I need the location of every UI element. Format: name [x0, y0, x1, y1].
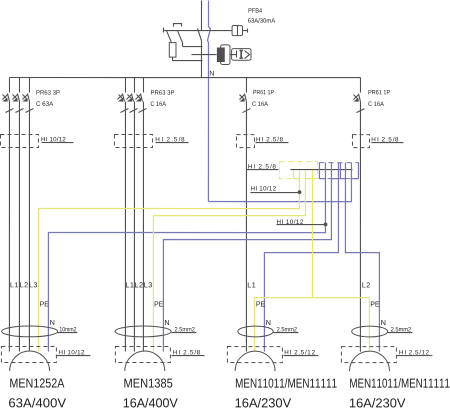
label PR63 3P (Q2) — [151, 90, 174, 94]
wire breaker2 pole3 lower to outlet — [142, 102, 144, 352]
socket arc outlet3 — [235, 351, 275, 371]
breaker pole contact Q2 P2 — [126, 94, 137, 113]
label L2 outlet1 — [20, 282, 28, 287]
breaker pole contact Q2 P1 — [117, 94, 128, 113]
PE wire to outlet1 — [38, 171, 299, 352]
label N outlet3 — [266, 320, 270, 325]
label PR61 1P (Q4) — [369, 90, 390, 94]
terminal box HI 2.5/8 (Q4) — [352, 135, 369, 148]
label 2.5mm2 outlet3 — [277, 327, 297, 331]
label L3 outlet1 — [30, 282, 38, 287]
label 10mm2 outlet1 — [60, 327, 76, 331]
wire breaker1 pole3 lower to outlet — [28, 102, 30, 352]
N loop stub b — [339, 163, 341, 179]
terminal box HI 2.5/8 (Q3) — [236, 135, 254, 148]
PE wire outlet4 — [368, 298, 370, 352]
socket arc outlet2 — [125, 351, 165, 371]
wire incoming phase L from top — [200, 1, 202, 31]
RCD test button box — [232, 26, 247, 36]
wire breaker2 pole2 lower to outlet — [133, 102, 135, 352]
PE wire to outlet2 — [153, 171, 305, 352]
terminal strip spine leader — [290, 169, 352, 171]
RCD mechanical linkage bracket — [173, 24, 181, 27]
N wire to outlet3 — [264, 163, 338, 352]
outlet terminal box 4 — [341, 347, 396, 363]
label MEN1385 — [124, 378, 172, 387]
junction dot on N wire — [324, 222, 328, 226]
wire breaker4 upper — [359, 78, 361, 93]
label HI 10/12 leader2 — [277, 219, 303, 224]
label PE outlet2 — [155, 301, 163, 306]
N U-bottom 1 — [319, 178, 325, 180]
label HI 2.5/8 (Q2) — [156, 137, 185, 142]
label N outlet1 — [50, 320, 54, 325]
N terminal strip (blue dashed) — [319, 163, 358, 179]
label 63A/400V — [9, 398, 66, 408]
toroid sensing line — [191, 54, 216, 56]
label L1 outlet1 — [11, 282, 19, 287]
cable ellipse outlet3 — [238, 326, 273, 337]
N U-bottom 3 — [340, 178, 345, 180]
PE branch horizontal — [254, 297, 369, 299]
label L1 outlet2 — [126, 282, 134, 287]
wire breaker1 pole1 upper — [8, 78, 10, 93]
label MEN11011/MEN11111 — [236, 378, 337, 388]
outlet terminal box 2 — [115, 347, 170, 363]
N loop stub c — [357, 163, 359, 179]
wire breaker1 pole3 upper — [28, 78, 30, 93]
PE U-bottom 2 — [305, 178, 312, 180]
PE loop stub — [292, 171, 294, 179]
label PR63 3P (Q1) — [36, 90, 59, 94]
wire breaker1 pole2 upper — [18, 78, 20, 93]
RCD Q0 phase contact blade — [197, 29, 201, 41]
label PE outlet1 — [40, 301, 48, 306]
label HI 2.5/8 (Q4) — [372, 137, 398, 142]
wire blade to phase — [182, 46, 202, 48]
RCD trip coil — [169, 43, 176, 58]
label PE outlet3 — [256, 302, 264, 307]
label HI 2.5/12 outlet3 — [285, 350, 315, 355]
label L3 outlet2 — [144, 282, 152, 287]
RCD test contact blade — [166, 31, 171, 43]
N U-bottom 2 — [331, 178, 338, 180]
socket arc outlet4 — [350, 351, 390, 371]
RCD top linkage line — [163, 30, 232, 32]
label HI 2.5/12 outlet4 — [399, 350, 428, 355]
label L2 outlet4 — [362, 282, 370, 287]
label HI 10/12 leader1 — [251, 186, 276, 191]
label 16A/400V — [124, 398, 178, 408]
wire coil to trip unit — [172, 58, 202, 61]
outlet terminal box 1 — [1, 347, 56, 363]
overcurrent release I> box — [231, 49, 251, 61]
N wire to outlet1 — [48, 163, 325, 352]
N wire to outlet4 — [345, 163, 379, 352]
label HI 2.5/8 (Q3) — [256, 137, 282, 142]
wire breaker2 pole3 upper — [142, 78, 144, 93]
PE terminal strip (yellow dashed) — [279, 162, 317, 179]
cable ellipse outlet2 — [115, 326, 171, 337]
label C 63A (Q1) — [36, 101, 53, 105]
label MEN1252A — [10, 378, 64, 387]
bus bar L — [9, 77, 360, 79]
wire breaker3 lower to outlet — [245, 102, 247, 352]
breaker pole contact Q1 P2 — [12, 94, 23, 113]
label N outlet2 — [165, 320, 169, 325]
RCD toroid core — [217, 48, 225, 63]
label MEN11011/MEN11111 — [350, 378, 449, 388]
wire breaker2 pole1 lower to outlet — [124, 102, 126, 352]
label PR61 1P (Q3) — [253, 90, 273, 94]
terminal tick left — [162, 28, 164, 33]
wire breaker4 lower to outlet — [359, 102, 361, 352]
outlet terminal box 3 — [227, 347, 282, 363]
label C 16A (Q4) — [368, 101, 384, 105]
N feed wire from RCD — [208, 163, 351, 202]
label L1 outlet3 — [248, 282, 256, 287]
label HI 10/12 (Q1) — [41, 137, 65, 142]
wire breaker3 upper — [245, 78, 247, 93]
label 2.5mm2 outlet4 — [391, 327, 411, 331]
junction dot on PE wire — [298, 190, 302, 194]
PE feed to outlets 3+4 — [311, 171, 313, 298]
wire breaker1 pole2 lower to outlet — [18, 102, 20, 352]
PE wire outlet3 — [253, 298, 255, 352]
wire frame to release — [230, 54, 231, 56]
cable ellipse outlet1 — [2, 326, 58, 337]
label 16A/230V — [236, 398, 292, 408]
wire breaker2 pole2 upper — [133, 78, 135, 93]
breaker pole contact Q1 P1 — [2, 94, 13, 113]
PE U-bottom 1 — [293, 178, 299, 180]
breaker pole contact Q3 — [239, 94, 250, 113]
label N at RCD output — [210, 71, 214, 76]
breaker pole contact Q1 P3 — [22, 94, 33, 113]
terminal box HI 10/12 (Q1) — [0, 135, 38, 148]
label C 16A (Q2) — [151, 101, 166, 105]
wire phase from RCD to bus — [200, 41, 202, 78]
label 16A/230V — [350, 398, 406, 408]
N U-bottom 4 — [351, 178, 358, 180]
cable ellipse outlet4 — [352, 326, 388, 337]
N wire to outlet2 — [163, 163, 331, 352]
label L2 outlet2 — [135, 282, 143, 287]
label HI 10/12 outlet1 — [59, 350, 84, 355]
label C 16A (Q3) — [252, 101, 268, 105]
label PFB4 — [249, 8, 262, 12]
label HI 2.5/8 terminal strip — [248, 164, 275, 169]
label 63A/30mA — [248, 18, 275, 23]
socket arc outlet1 — [10, 351, 50, 371]
terminal box HI 2.5/8 (Q2) — [114, 135, 152, 148]
breaker pole contact Q2 P3 — [135, 94, 146, 113]
label 2.5mm2 outlet2 — [175, 327, 195, 331]
label HI 2.5/8 outlet2 — [173, 350, 200, 355]
wire incoming neutral N (blue) with RCD contact kink — [207, 1, 210, 202]
RCD second contact blade — [177, 31, 182, 47]
RCD toroid frame — [221, 45, 230, 65]
wire breaker2 pole1 upper — [124, 78, 126, 93]
label PE outlet4 — [371, 302, 379, 307]
wire breaker1 pole1 lower to outlet — [8, 102, 10, 352]
label N outlet4 — [381, 320, 385, 325]
breaker pole contact Q4 — [353, 94, 364, 113]
N loop stub — [318, 163, 320, 179]
